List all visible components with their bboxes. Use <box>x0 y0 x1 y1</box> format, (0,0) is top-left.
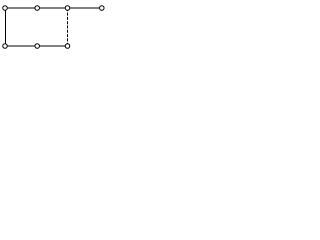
node E bottom-left <box>3 44 8 49</box>
node A top-left <box>3 6 8 11</box>
node F bottom-mid <box>35 44 40 49</box>
node C top-dash <box>65 6 70 11</box>
wire bottom horizontal <box>5 46 68 47</box>
node B top-mid <box>35 6 40 11</box>
node G bottom-dash <box>65 44 70 49</box>
wire top horizontal <box>5 8 102 9</box>
wire dashed vertical <box>67 8 69 43</box>
node D top-right <box>100 6 105 11</box>
background <box>0 0 108 55</box>
wire left vertical <box>5 10 6 44</box>
